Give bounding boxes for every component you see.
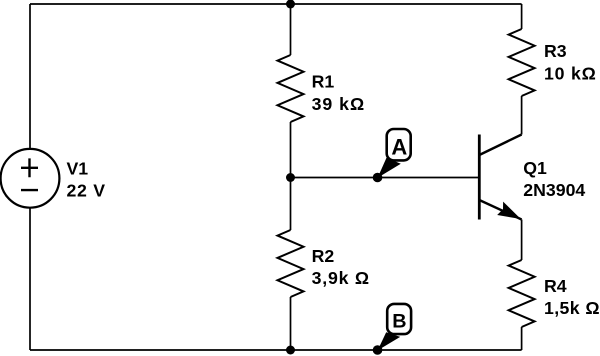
svg-text:2N3904: 2N3904: [523, 180, 585, 200]
resistor R3: [509, 29, 535, 96]
wire left rail upper: [29, 4, 31, 149]
wire collector: [521, 96, 523, 135]
svg-text:R3: R3: [544, 41, 567, 61]
resistor R1: [278, 55, 304, 122]
svg-text:V1: V1: [67, 159, 89, 179]
node B: [373, 304, 411, 355]
voltage source V1: [1, 149, 60, 208]
wire middle branch bottom: [290, 297, 292, 350]
svg-text:39 kΩ: 39 kΩ: [312, 94, 366, 114]
transistor Q1: [479, 135, 521, 220]
svg-text:3,9k Ω: 3,9k Ω: [312, 268, 370, 288]
svg-text:1,5k Ω: 1,5k Ω: [544, 298, 600, 318]
wire top rail: [30, 3, 522, 5]
wire base: [291, 177, 479, 179]
node A: [373, 129, 411, 182]
junction base: [286, 173, 295, 182]
wire emitter: [521, 220, 523, 261]
junction bottom: [286, 346, 295, 355]
wire middle branch top: [290, 4, 292, 55]
wire bottom rail: [30, 349, 522, 351]
svg-text:10 kΩ: 10 kΩ: [544, 64, 597, 84]
wire left rail lower: [29, 208, 31, 350]
junction top: [286, 0, 295, 9]
svg-text:B: B: [392, 311, 406, 333]
svg-text:R1: R1: [312, 72, 335, 92]
wire right branch bottom: [521, 327, 523, 350]
wire right branch top: [521, 4, 523, 29]
wire middle branch mid: [290, 122, 292, 230]
resistor R4: [509, 260, 535, 327]
resistor R2: [278, 230, 304, 297]
svg-text:Q1: Q1: [523, 158, 547, 178]
svg-text:R2: R2: [312, 246, 335, 266]
svg-text:A: A: [391, 135, 407, 160]
svg-text:R4: R4: [544, 276, 567, 296]
svg-text:22 V: 22 V: [67, 181, 106, 201]
